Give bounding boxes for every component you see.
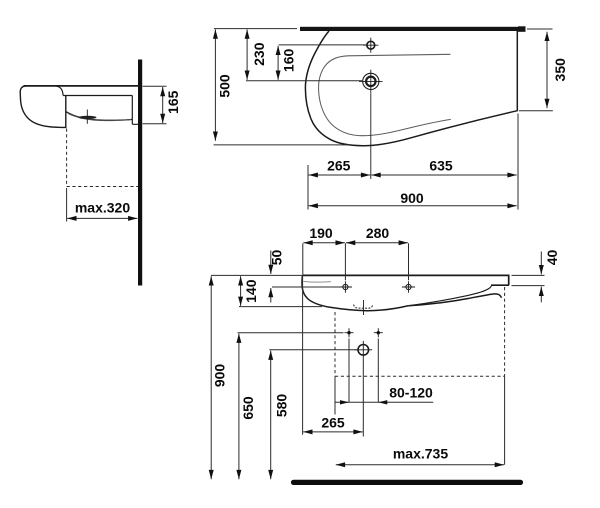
svg-text:580: 580 — [274, 394, 290, 418]
svg-text:230: 230 — [251, 42, 267, 66]
svg-text:max.735: max.735 — [393, 445, 448, 461]
svg-text:165: 165 — [165, 90, 181, 114]
svg-text:40: 40 — [544, 250, 560, 266]
svg-text:650: 650 — [240, 396, 256, 420]
svg-text:80-120: 80-120 — [389, 384, 433, 400]
svg-text:350: 350 — [552, 58, 568, 82]
svg-text:140: 140 — [243, 279, 259, 303]
svg-text:190: 190 — [309, 225, 333, 241]
svg-text:900: 900 — [400, 190, 424, 206]
svg-text:max.320: max.320 — [75, 200, 130, 216]
svg-text:265: 265 — [321, 414, 345, 430]
svg-text:265: 265 — [327, 157, 351, 173]
svg-text:50: 50 — [269, 250, 285, 266]
svg-text:500: 500 — [217, 74, 233, 98]
svg-text:160: 160 — [281, 49, 297, 73]
svg-text:900: 900 — [212, 364, 228, 388]
svg-text:635: 635 — [429, 157, 453, 173]
svg-text:280: 280 — [366, 225, 390, 241]
